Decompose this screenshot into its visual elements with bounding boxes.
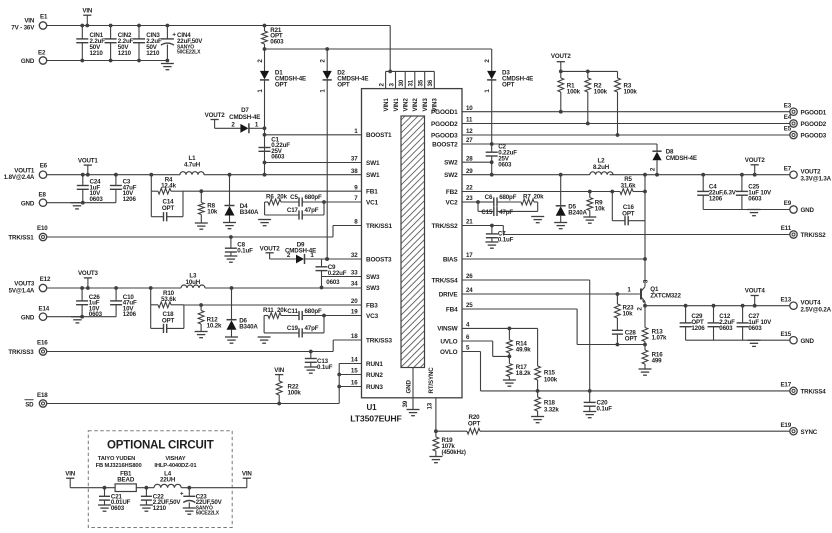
svg-text:C19: C19 xyxy=(287,325,299,332)
svg-text:OPT: OPT xyxy=(502,81,515,88)
svg-text:VIN: VIN xyxy=(82,8,93,15)
svg-text:49.9k: 49.9k xyxy=(516,346,531,353)
svg-text:C11: C11 xyxy=(287,308,298,315)
svg-text:TRK/SS1: TRK/SS1 xyxy=(366,223,393,230)
svg-text:26: 26 xyxy=(466,273,473,280)
svg-text:R7: R7 xyxy=(523,194,531,201)
svg-text:IHLP-4040DZ-01: IHLP-4040DZ-01 xyxy=(154,463,197,469)
svg-text:VIN2: VIN2 xyxy=(403,98,410,112)
svg-text:0603: 0603 xyxy=(326,279,340,286)
svg-text:0603: 0603 xyxy=(748,196,762,203)
svg-text:12: 12 xyxy=(466,128,473,135)
svg-text:7V - 36V: 7V - 36V xyxy=(11,24,35,31)
svg-text:20k: 20k xyxy=(534,194,545,201)
svg-text:PGOOD3: PGOOD3 xyxy=(801,133,827,140)
svg-text:680pF: 680pF xyxy=(305,194,323,201)
svg-text:FB2: FB2 xyxy=(446,189,458,196)
svg-text:RT/SYNC: RT/SYNC xyxy=(428,367,435,394)
svg-text:BOOST1: BOOST1 xyxy=(366,132,392,139)
svg-text:E1: E1 xyxy=(40,13,48,20)
svg-text:100k: 100k xyxy=(594,88,608,95)
svg-text:34: 34 xyxy=(351,281,358,288)
svg-text:3.3V@1.3A: 3.3V@1.3A xyxy=(801,175,832,182)
svg-text:50CE22LX: 50CE22LX xyxy=(177,50,201,56)
svg-text:10k: 10k xyxy=(595,206,606,213)
svg-text:E3: E3 xyxy=(784,102,792,109)
svg-text:10.2k: 10.2k xyxy=(207,323,222,330)
svg-text:CMDSH-4E: CMDSH-4E xyxy=(229,114,260,121)
svg-text:E14: E14 xyxy=(39,306,50,313)
svg-text:E2: E2 xyxy=(38,50,46,57)
svg-text:TRK/SS3: TRK/SS3 xyxy=(366,337,393,344)
svg-text:GND: GND xyxy=(21,58,35,65)
svg-text:OPT: OPT xyxy=(162,205,175,212)
svg-text:SW3: SW3 xyxy=(366,274,380,281)
svg-text:35: 35 xyxy=(418,79,425,86)
svg-text:TRK/SS4: TRK/SS4 xyxy=(801,389,827,396)
svg-text:C17: C17 xyxy=(287,207,299,214)
svg-text:VC1: VC1 xyxy=(366,199,379,206)
svg-text:DRIVE: DRIVE xyxy=(439,291,459,298)
svg-text:12.4k: 12.4k xyxy=(161,183,176,190)
svg-text:PGOOD3: PGOOD3 xyxy=(431,132,458,139)
svg-text:36: 36 xyxy=(427,79,434,86)
svg-text:OPT: OPT xyxy=(337,81,350,88)
svg-text:E10: E10 xyxy=(37,225,48,232)
svg-text:BIAS: BIAS xyxy=(443,256,459,263)
svg-text:22: 22 xyxy=(466,185,473,192)
svg-text:53.6k: 53.6k xyxy=(161,296,176,303)
svg-text:1206: 1206 xyxy=(709,196,723,203)
svg-text:ZXTCM322: ZXTCM322 xyxy=(650,292,681,299)
svg-text:11: 11 xyxy=(466,117,473,124)
svg-text:VOUT4: VOUT4 xyxy=(745,288,766,295)
svg-text:E9: E9 xyxy=(784,200,792,207)
svg-text:1210: 1210 xyxy=(90,50,104,57)
svg-text:31.6k: 31.6k xyxy=(621,183,636,190)
svg-text:20: 20 xyxy=(351,298,358,305)
svg-text:E7: E7 xyxy=(784,165,792,172)
svg-text:VOUT2: VOUT2 xyxy=(260,245,281,252)
svg-text:RUN3: RUN3 xyxy=(366,384,383,391)
svg-text:(450kHz): (450kHz) xyxy=(442,449,466,456)
svg-text:0603: 0603 xyxy=(90,196,104,203)
svg-text:31: 31 xyxy=(408,79,415,86)
svg-text:0603: 0603 xyxy=(748,325,762,332)
svg-text:TRK/SS1: TRK/SS1 xyxy=(8,235,34,242)
svg-text:1.07k: 1.07k xyxy=(652,334,667,341)
svg-text:CMDSH-4E: CMDSH-4E xyxy=(666,155,697,162)
svg-text:VIN3: VIN3 xyxy=(422,98,429,112)
svg-text:R6: R6 xyxy=(266,194,274,201)
svg-text:TAIYO YUDEN: TAIYO YUDEN xyxy=(98,456,135,462)
svg-text:VOUT1: VOUT1 xyxy=(78,157,99,164)
svg-text:R18: R18 xyxy=(544,399,556,406)
svg-text:E11: E11 xyxy=(781,225,792,232)
svg-text:0.1uF: 0.1uF xyxy=(498,236,514,243)
svg-text:OPTIONAL CIRCUIT: OPTIONAL CIRCUIT xyxy=(107,440,214,452)
svg-text:VIN: VIN xyxy=(274,367,285,374)
svg-text:13: 13 xyxy=(427,402,434,409)
svg-text:TRK/SS3: TRK/SS3 xyxy=(8,349,34,356)
svg-text:10k: 10k xyxy=(207,209,218,216)
svg-text:0603: 0603 xyxy=(719,325,733,332)
svg-text:499: 499 xyxy=(652,357,663,364)
svg-text:GND: GND xyxy=(801,338,815,345)
svg-text:VISHAY: VISHAY xyxy=(165,456,185,462)
svg-text:SW2: SW2 xyxy=(444,160,458,167)
svg-text:VOUT2: VOUT2 xyxy=(745,157,766,164)
svg-text:17: 17 xyxy=(466,252,473,259)
svg-text:+: + xyxy=(172,31,176,38)
svg-text:100k: 100k xyxy=(288,389,302,396)
svg-text:FB MJ3216HS800: FB MJ3216HS800 xyxy=(96,463,142,469)
svg-text:25: 25 xyxy=(466,302,473,309)
svg-text:1210: 1210 xyxy=(146,50,160,57)
svg-text:BEAD: BEAD xyxy=(117,477,135,484)
svg-text:+: + xyxy=(180,490,184,497)
svg-text:47pF: 47pF xyxy=(499,209,513,216)
svg-text:3.32k: 3.32k xyxy=(544,406,559,413)
svg-text:21: 21 xyxy=(466,219,473,226)
svg-text:B240A: B240A xyxy=(568,209,587,216)
svg-text:0.1uF: 0.1uF xyxy=(597,406,613,413)
svg-text:FB3: FB3 xyxy=(366,302,378,309)
svg-text:TRK/SS4: TRK/SS4 xyxy=(432,277,459,284)
svg-text:SW2: SW2 xyxy=(444,172,458,179)
svg-text:OPT: OPT xyxy=(625,335,638,342)
svg-text:10uH: 10uH xyxy=(186,279,201,286)
svg-text:C5: C5 xyxy=(290,194,298,201)
svg-text:VIN: VIN xyxy=(242,471,253,478)
svg-text:19: 19 xyxy=(351,309,358,316)
svg-text:VOUT3: VOUT3 xyxy=(78,270,99,277)
svg-text:OPT: OPT xyxy=(622,210,635,217)
svg-text:OPT: OPT xyxy=(275,81,288,88)
svg-text:VC3: VC3 xyxy=(366,313,379,320)
svg-text:B340A: B340A xyxy=(239,324,258,331)
svg-text:38: 38 xyxy=(351,168,358,175)
svg-text:14: 14 xyxy=(351,357,358,364)
svg-text:UVLO: UVLO xyxy=(440,338,457,345)
svg-text:1206: 1206 xyxy=(123,196,137,203)
svg-text:GND: GND xyxy=(21,200,35,207)
svg-text:1206: 1206 xyxy=(691,325,705,332)
svg-text:5V@1.4A: 5V@1.4A xyxy=(9,287,35,294)
svg-text:E15: E15 xyxy=(780,331,791,338)
svg-text:E4: E4 xyxy=(784,114,792,121)
svg-text:20k: 20k xyxy=(277,307,288,314)
svg-text:18.2k: 18.2k xyxy=(516,370,531,377)
svg-text:0.1uF: 0.1uF xyxy=(317,364,333,371)
svg-text:24: 24 xyxy=(466,287,473,294)
svg-text:100k: 100k xyxy=(624,88,638,95)
svg-text:BOOST3: BOOST3 xyxy=(366,256,392,263)
svg-text:VIN3: VIN3 xyxy=(432,98,439,112)
svg-text:10k: 10k xyxy=(623,311,634,318)
svg-text:VC2: VC2 xyxy=(446,199,459,206)
svg-text:VOUT2: VOUT2 xyxy=(551,53,572,60)
svg-text:PGOOD2: PGOOD2 xyxy=(801,121,827,128)
svg-text:29: 29 xyxy=(466,168,473,175)
svg-text:E17: E17 xyxy=(780,382,791,389)
svg-text:100k: 100k xyxy=(567,88,581,95)
svg-text:FB4: FB4 xyxy=(446,306,458,313)
svg-text:18: 18 xyxy=(351,333,358,340)
svg-text:OVLO: OVLO xyxy=(440,349,458,356)
svg-text:16: 16 xyxy=(351,380,358,387)
svg-text:47pF: 47pF xyxy=(305,325,319,332)
svg-text:B340A: B340A xyxy=(240,209,259,216)
svg-text:28: 28 xyxy=(466,155,473,162)
svg-text:U1: U1 xyxy=(367,403,378,412)
svg-text:20k: 20k xyxy=(277,194,288,201)
svg-text:680pF: 680pF xyxy=(499,194,517,201)
svg-text:0603: 0603 xyxy=(111,505,125,512)
svg-text:1210: 1210 xyxy=(118,50,132,57)
svg-text:FB1: FB1 xyxy=(366,189,378,196)
svg-text:R15: R15 xyxy=(544,369,556,376)
svg-text:E5: E5 xyxy=(784,126,792,133)
svg-text:VIN1: VIN1 xyxy=(393,98,400,112)
svg-text:E16: E16 xyxy=(37,340,48,347)
svg-text:E18: E18 xyxy=(37,392,48,399)
svg-text:PGOOD2: PGOOD2 xyxy=(431,121,458,128)
svg-text:RUN1: RUN1 xyxy=(366,361,383,368)
svg-text:LT3507EUHF: LT3507EUHF xyxy=(350,414,401,424)
svg-text:VIN2: VIN2 xyxy=(412,98,419,112)
svg-text:E12: E12 xyxy=(40,276,51,283)
svg-text:E13: E13 xyxy=(780,296,791,303)
svg-text:GND: GND xyxy=(801,207,815,214)
svg-text:E6: E6 xyxy=(40,163,48,170)
svg-text:0.1uF: 0.1uF xyxy=(237,248,253,255)
svg-text:SYNC: SYNC xyxy=(801,429,818,436)
svg-text:0603: 0603 xyxy=(498,162,512,169)
svg-text:SW3: SW3 xyxy=(366,285,380,292)
svg-text:VOUT4: VOUT4 xyxy=(801,299,822,306)
svg-text:8.2uH: 8.2uH xyxy=(593,164,610,171)
svg-text:30: 30 xyxy=(398,79,405,86)
svg-text:0603: 0603 xyxy=(270,38,284,45)
svg-text:GND: GND xyxy=(406,380,413,394)
svg-text:10: 10 xyxy=(466,105,473,112)
svg-text:47pF: 47pF xyxy=(305,207,319,214)
svg-text:C6: C6 xyxy=(485,194,493,201)
svg-text:BOOST2: BOOST2 xyxy=(432,141,458,148)
svg-text:680pF: 680pF xyxy=(305,308,323,315)
svg-text:VOUT2: VOUT2 xyxy=(801,168,822,175)
svg-text:E19: E19 xyxy=(780,422,791,429)
svg-text:TRK/SS2: TRK/SS2 xyxy=(432,223,459,230)
svg-text:C15: C15 xyxy=(481,209,493,216)
svg-text:E8: E8 xyxy=(39,192,47,199)
svg-text:TRK/SS2: TRK/SS2 xyxy=(801,232,827,239)
svg-text:0603: 0603 xyxy=(271,153,285,160)
svg-text:33: 33 xyxy=(351,270,358,277)
svg-text:15: 15 xyxy=(351,368,358,375)
svg-text:SD: SD xyxy=(25,402,34,409)
svg-text:4.7uH: 4.7uH xyxy=(184,161,201,168)
svg-text:PGOOD1: PGOOD1 xyxy=(801,109,827,116)
svg-text:37: 37 xyxy=(351,156,358,163)
svg-text:R11: R11 xyxy=(263,307,274,314)
svg-text:SW1: SW1 xyxy=(366,160,380,167)
svg-text:VIN: VIN xyxy=(65,471,76,478)
svg-text:VOUT2: VOUT2 xyxy=(205,112,226,119)
svg-text:27: 27 xyxy=(466,137,473,144)
svg-text:OPT: OPT xyxy=(468,420,481,427)
svg-text:1206: 1206 xyxy=(123,311,137,318)
svg-text:50CE22LX: 50CE22LX xyxy=(196,510,220,516)
svg-text:SW1: SW1 xyxy=(366,172,380,179)
svg-text:2.5V@0.2A: 2.5V@0.2A xyxy=(801,306,832,313)
svg-text:RUN2: RUN2 xyxy=(366,372,383,379)
svg-text:VIN1: VIN1 xyxy=(383,98,390,112)
svg-text:100k: 100k xyxy=(544,376,558,383)
svg-text:32: 32 xyxy=(351,252,358,259)
svg-text:VINSW: VINSW xyxy=(437,326,458,333)
svg-text:22UH: 22UH xyxy=(160,477,176,484)
svg-text:1210: 1210 xyxy=(153,505,167,512)
svg-text:GND: GND xyxy=(21,314,35,321)
svg-text:1.8V@2.4A: 1.8V@2.4A xyxy=(4,174,35,181)
svg-text:39: 39 xyxy=(402,400,409,407)
svg-text:23: 23 xyxy=(466,195,473,202)
svg-text:OPT: OPT xyxy=(162,318,175,325)
